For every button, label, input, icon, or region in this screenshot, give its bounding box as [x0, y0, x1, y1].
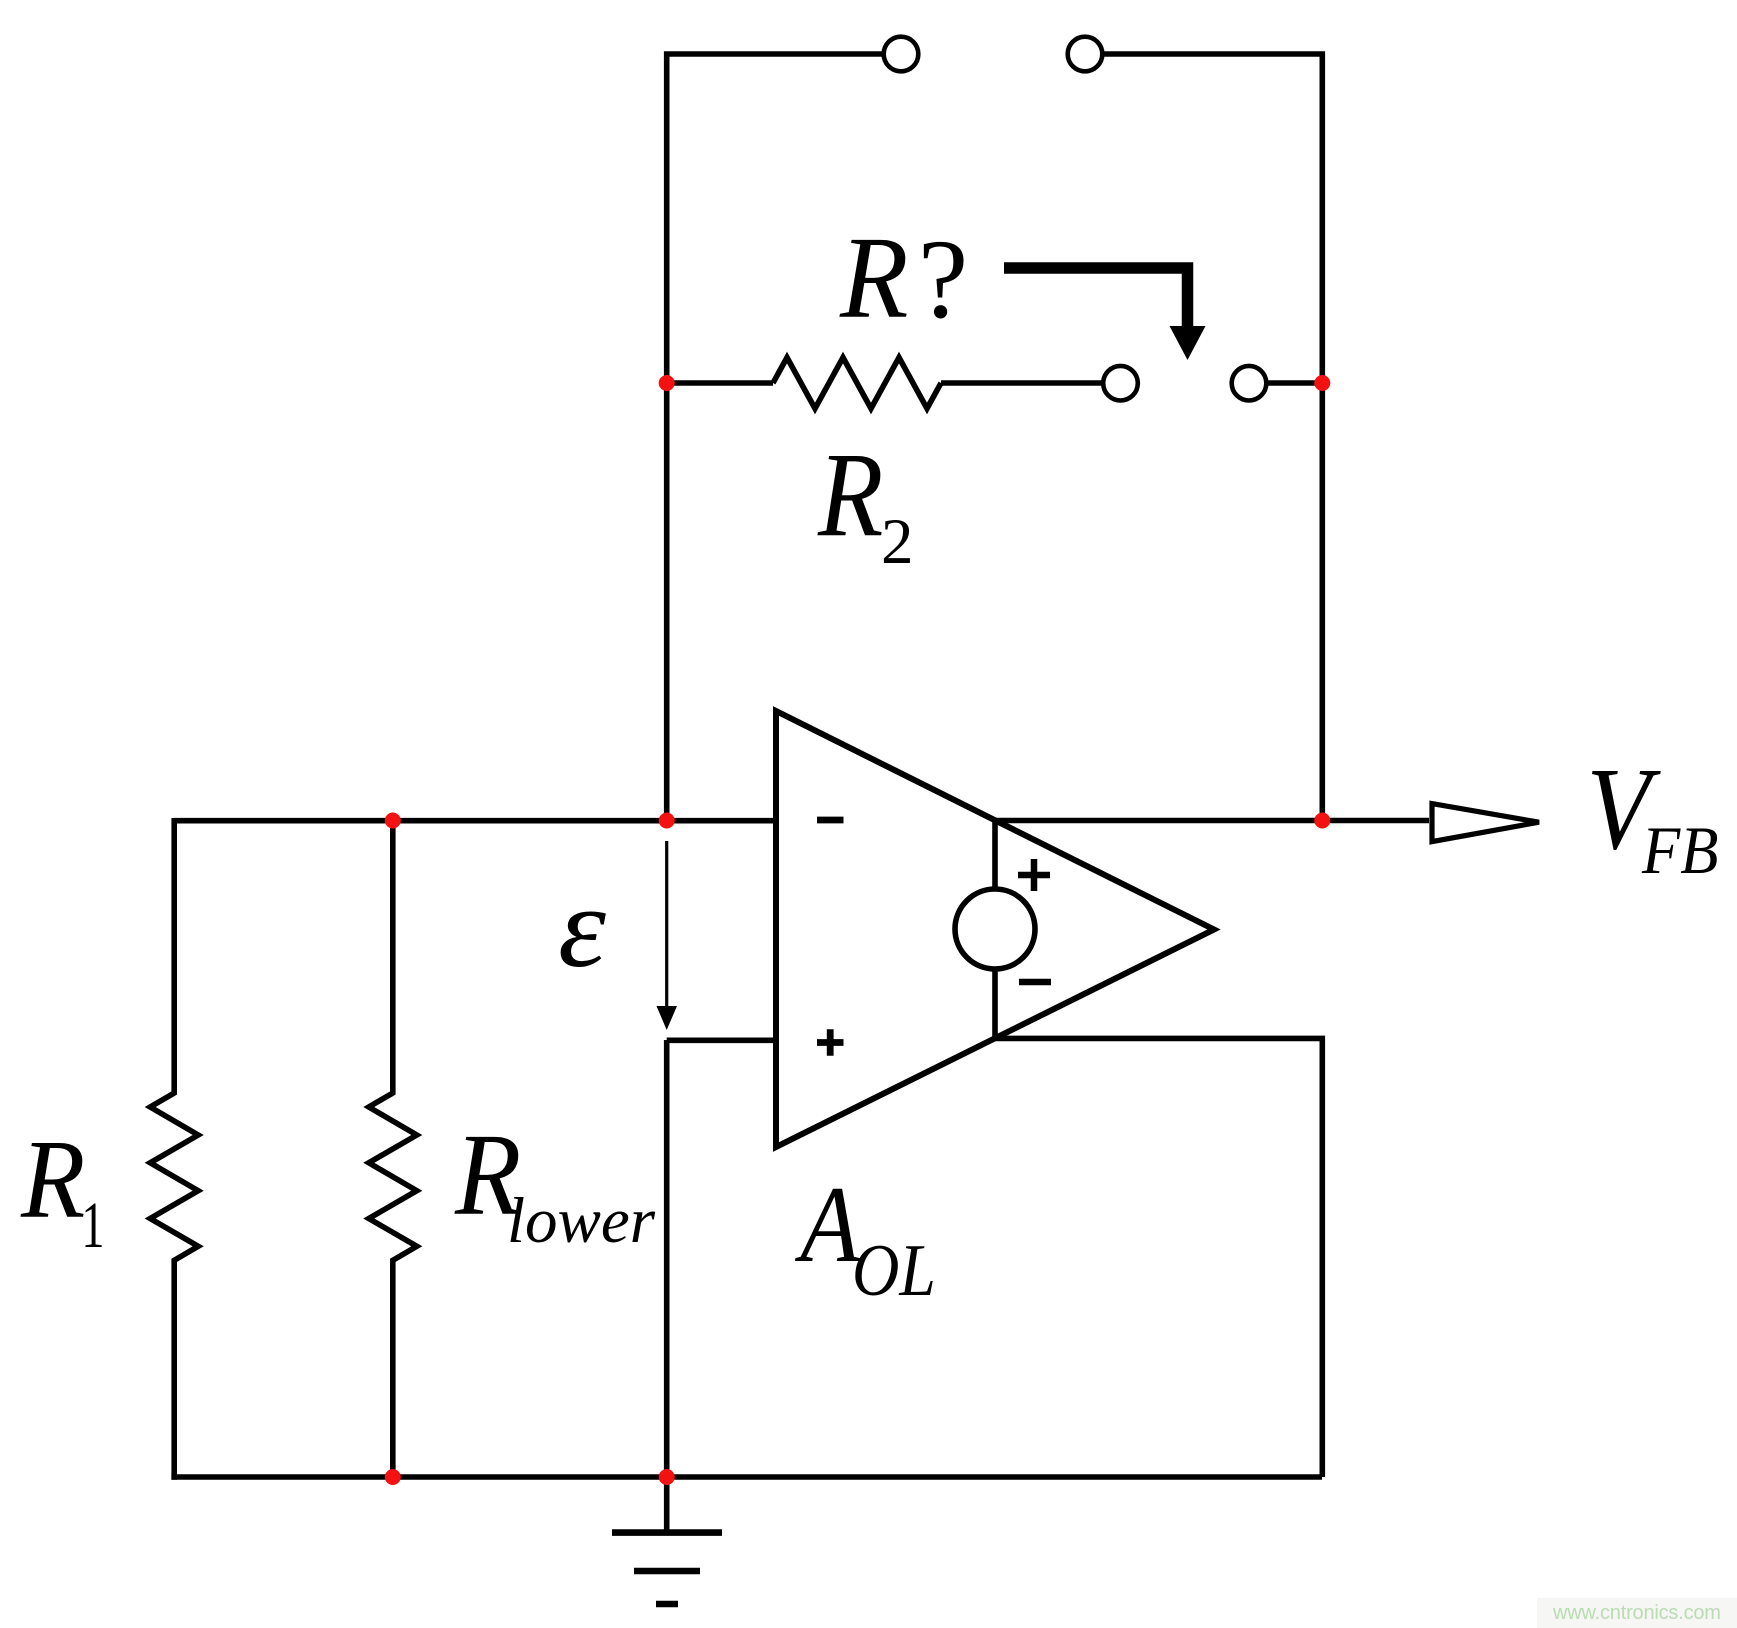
resistor R2 (horizontal zigzag) [773, 358, 941, 409]
node dot: Rlower bottom junction [385, 1469, 401, 1485]
svg-text:2: 2 [881, 506, 914, 578]
wire R1 branch with resistor R1 (vertical zigzag) [150, 818, 198, 1480]
node dot: epsilon top junction (inverting input node) [659, 813, 675, 829]
wire noninverting input [667, 1038, 776, 1044]
dependent source minus sign [1019, 979, 1051, 986]
watermark background [1537, 1598, 1737, 1628]
switch S1 right terminal circle (top) [1068, 37, 1103, 72]
node dot: Rlower top junction [385, 813, 401, 829]
svg-text:1: 1 [81, 1189, 104, 1262]
switch S1 left terminal circle (top) [884, 37, 919, 72]
wire noninverting return path (right side down to ground bus) [995, 1038, 1322, 1477]
wire R2 right lead to switch [941, 380, 1104, 386]
wire ground stem from plus input [664, 1040, 670, 1533]
node dot: ground junction [659, 1469, 675, 1485]
switch S2 left terminal circle (R2 branch) [1103, 366, 1138, 401]
dependent source plus sign [1018, 859, 1050, 891]
output arrowhead (open triangle) [1432, 804, 1539, 842]
svg-text:R: R [20, 1117, 85, 1242]
dependent source bottom lead [992, 969, 998, 1038]
op-amp minus input sign [817, 817, 844, 824]
svg-text:?: ? [918, 217, 968, 342]
wire output VFB [995, 818, 1429, 824]
wire bottom ground bus [171, 1474, 1322, 1480]
node dot: R2 left junction [659, 375, 675, 391]
switch S2 right terminal circle (R2 branch) [1232, 366, 1267, 401]
wire top loop left: from node E up and right to switch terminal [667, 54, 884, 823]
svg-text:ε: ε [558, 863, 606, 992]
ground symbol [612, 1533, 722, 1604]
epsilon arrow (thin, pointing down) [657, 841, 678, 1030]
wire inverting input (node Vminus horizontal) [174, 818, 776, 824]
wire switch right lead to node [1266, 380, 1322, 386]
wire Rlower branch with resistor Rlower (vertical zigzag) [369, 818, 417, 1480]
svg-text:lower: lower [507, 1185, 656, 1257]
svg-text:www.cntronics.com: www.cntronics.com [1552, 1602, 1721, 1624]
node dot: R2 right junction [1314, 375, 1330, 391]
dependent source E1 circle [955, 889, 1035, 969]
op-amp U1 triangle [776, 711, 1214, 1147]
svg-text:OL: OL [852, 1230, 936, 1312]
wire R2 left lead [667, 380, 773, 386]
svg-text:R: R [839, 211, 908, 342]
annotation arrow (thick bent arrow pointing to switch) [1004, 268, 1206, 360]
op-amp plus input sign [817, 1029, 844, 1056]
svg-text:A: A [795, 1165, 861, 1285]
wire top loop right: from switch terminal right and down to output node [1103, 54, 1323, 823]
node dot: output VFB junction [1314, 813, 1330, 829]
dependent source top lead [992, 821, 998, 890]
svg-text:FB: FB [1641, 814, 1718, 889]
svg-text:R: R [817, 427, 883, 561]
